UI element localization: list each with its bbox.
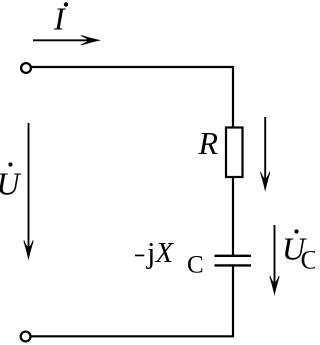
wire resistor to capacitor [232,177,234,256]
svg-text:R: R [198,125,219,161]
svg-text:U: U [0,166,22,202]
arrow beside resistor [260,117,270,192]
resistor R [226,128,243,178]
terminal bottom-left [21,332,31,342]
svg-text:I: I [53,0,66,36]
label -jXc [135,237,204,279]
svg-text:C: C [187,252,204,279]
wire capacitor to bottom-right corner to terminal [32,267,234,337]
svg-text:j: j [146,237,155,270]
current reference arrow [33,35,101,45]
arrow beside capacitor [270,225,280,296]
label U-dot (source voltage phasor) [0,162,22,201]
voltage reference arrow left [24,123,34,261]
label I-dot (current phasor) [53,0,68,36]
terminal top-left [21,63,31,73]
label Uc-dot (capacitor voltage phasor) [282,229,318,274]
capacitor C bottom plate [215,264,252,266]
wire top: terminal to top-right corner, down to resistor [32,67,234,128]
svg-text:C: C [301,245,316,275]
svg-text:X: X [155,238,175,269]
capacitor C top plate [215,255,252,257]
